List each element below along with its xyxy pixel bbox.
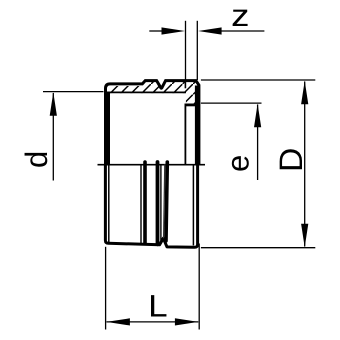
- svg-text:D: D: [273, 148, 309, 172]
- left inner thin (lower): [108, 164, 110, 242]
- step line: [98, 164, 206, 166]
- dimension L: right arrow (points right): [175, 318, 199, 325]
- svg-text:z: z: [231, 0, 249, 33]
- dimension D: top extension line: [201, 79, 315, 81]
- dimension z: right extension line: [196, 21, 198, 80]
- groove C thick: [166, 162, 167, 241]
- dimension z: left extension line: [185, 21, 187, 80]
- dimension d: arrow up: [50, 92, 57, 116]
- dimension L: left arrow (points left): [106, 318, 129, 325]
- dimension z: right line: [221, 30, 265, 32]
- dimension D: line: [304, 82, 306, 247]
- dimension D: arrow down: [301, 224, 308, 248]
- dimension D: bottom extension line: [201, 247, 315, 249]
- svg-text:L: L: [148, 288, 168, 323]
- svg-text:d: d: [19, 151, 54, 168]
- dimension D: arrow up: [301, 81, 308, 105]
- right inner section edge (upper): [195, 86, 198, 165]
- groove A thin: [140, 164, 142, 243]
- dimension d: line: [52, 93, 54, 181]
- dimension L: right extension line: [198, 244, 200, 330]
- band inner line: [104, 91, 186, 93]
- lip inner line to step: [184, 104, 186, 165]
- wall bottom thick line: [185, 104, 196, 107]
- upper body outer contour: [106, 81, 199, 165]
- dimension e: line: [257, 105, 259, 181]
- svg-text:e: e: [221, 155, 256, 172]
- dimension z: left arrow (points right): [162, 27, 186, 34]
- hatched section region (top band + right wall): [106, 82, 200, 105]
- dimension z: right arrow (points left): [198, 27, 222, 34]
- dimension e: extension line: [201, 102, 262, 104]
- groove C thin: [164, 164, 165, 238]
- groove A thick: [143, 162, 147, 244]
- left inner thick edge (upper): [107, 92, 110, 164]
- right inner thin (lower): [192, 164, 194, 245]
- groove B thick: [156, 162, 160, 244]
- dimension z: left line: [149, 30, 163, 32]
- dimension L: left extension line: [105, 247, 107, 330]
- dimension e: arrow up: [254, 104, 261, 128]
- dimension L: line: [107, 321, 199, 323]
- lower body outer contour: [105, 164, 197, 247]
- lip inner line upper stub: [184, 82, 186, 89]
- dimension d: extension line: [43, 91, 104, 93]
- groove B thin: [160, 164, 162, 244]
